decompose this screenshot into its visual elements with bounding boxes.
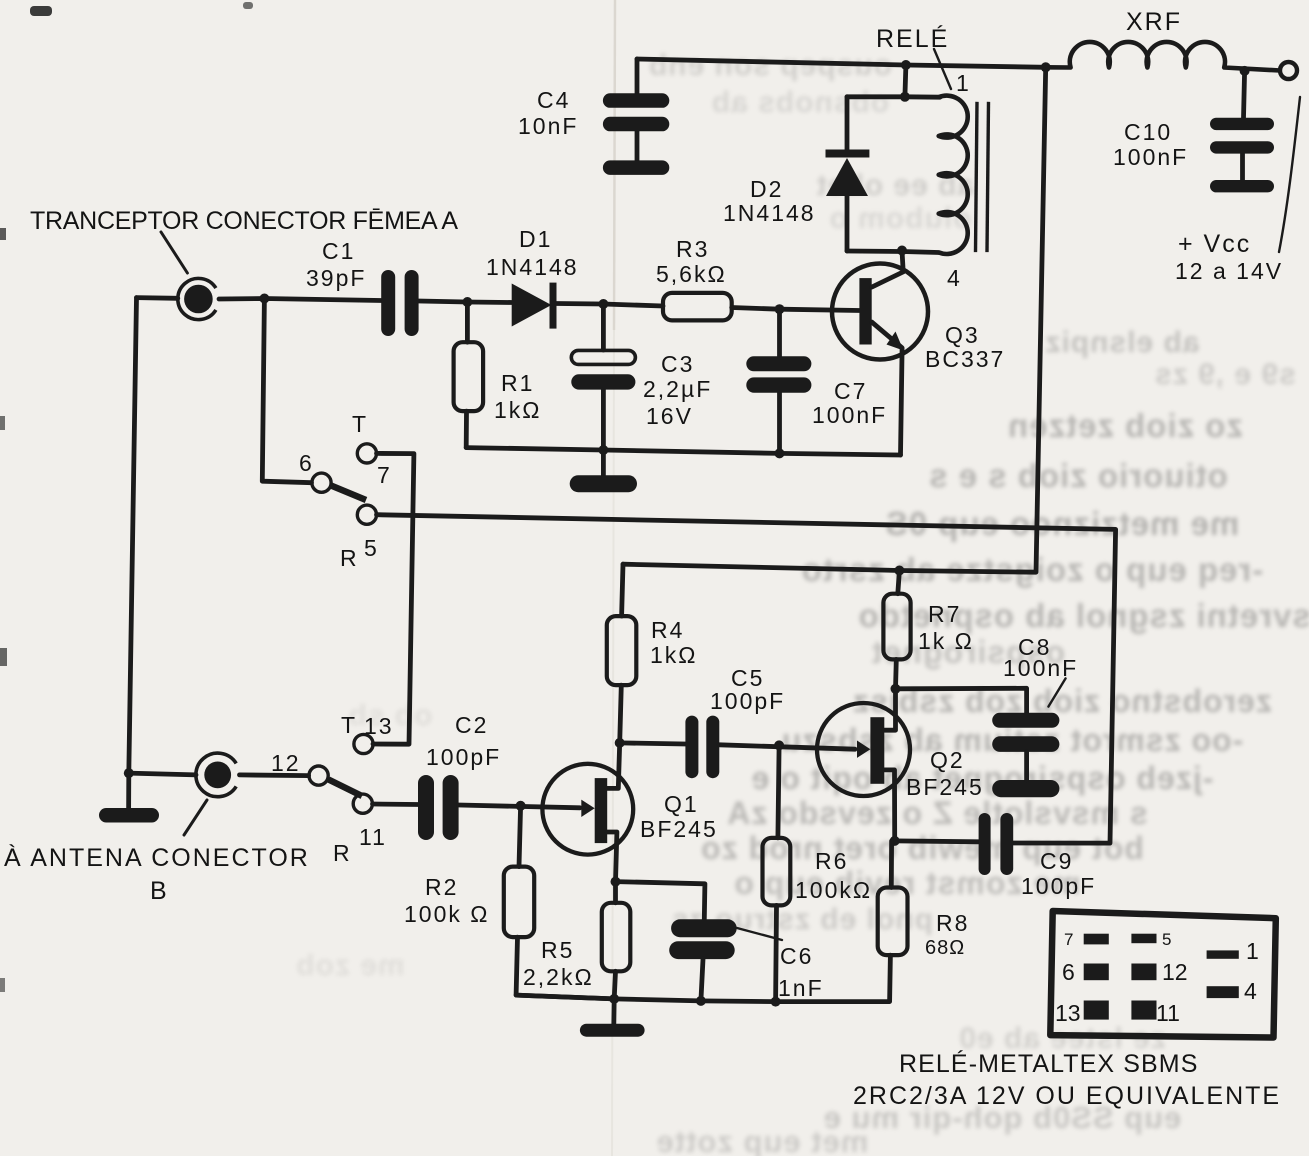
svg-text:BF245: BF245 xyxy=(906,774,984,800)
wire contact 7 down to contact 13 xyxy=(373,453,414,744)
resistor R5 stem bottom xyxy=(614,971,615,999)
resistor R4 stem bottom xyxy=(620,685,622,743)
wire left of connector A xyxy=(137,295,178,300)
svg-text:C4: C4 xyxy=(537,87,570,113)
resistor R5 body xyxy=(602,903,631,972)
svg-text:À ANTENA CONECTOR: À ANTENA CONECTOR xyxy=(4,843,310,872)
svg-text:5: 5 xyxy=(1162,930,1171,949)
diode D2 1N4148 stem top xyxy=(845,97,850,150)
relay coil winding xyxy=(939,96,968,254)
svg-text:68Ω: 68Ω xyxy=(925,937,965,959)
capacitor C5 plates xyxy=(685,716,698,779)
transistor Q3 circle xyxy=(832,264,928,360)
node junction Q2 source xyxy=(890,836,900,846)
capacitor C6 stem bottom xyxy=(701,959,703,1001)
capacitor C4 plates xyxy=(603,93,669,108)
transistor Q2 channel bar xyxy=(870,717,884,784)
relay pad 7 xyxy=(1084,934,1109,945)
svg-text:T: T xyxy=(352,411,368,437)
svg-text:otiuorio ziob s e s: otiuorio ziob s e s xyxy=(928,457,1228,494)
svg-text:C10: C10 xyxy=(1124,119,1172,145)
svg-text:100pF: 100pF xyxy=(1021,873,1096,899)
pointer line C6 xyxy=(737,928,782,940)
node junction Q1 source xyxy=(611,877,621,887)
transistor Q2 drain lead xyxy=(884,689,895,730)
svg-text:2,2µF: 2,2µF xyxy=(643,376,712,402)
svg-text:1k Ω: 1k Ω xyxy=(918,628,974,654)
capacitor C1 plates xyxy=(381,270,395,336)
svg-text:s9 e ,9 zs: s9 e ,9 zs xyxy=(1154,358,1296,391)
svg-text:1nF: 1nF xyxy=(778,975,824,1001)
svg-text:5: 5 xyxy=(364,535,379,561)
svg-text:2RC2/3A 12V OU EQUIVALENTE: 2RC2/3A 12V OU EQUIVALENTE xyxy=(853,1082,1281,1110)
svg-text:R7: R7 xyxy=(928,601,961,627)
wire contact 5 to lower oscillator xyxy=(377,515,1116,843)
svg-text:Q3: Q3 xyxy=(945,322,980,348)
svg-text:s msvslotle Z o zevsdo zA: s msvslotle Z o zevsdo zA xyxy=(726,795,1148,831)
relay pad 11 xyxy=(1131,1001,1156,1020)
svg-text:39pF: 39pF xyxy=(306,265,366,291)
svg-text:R3: R3 xyxy=(676,236,709,262)
switch S1b contact 12 xyxy=(309,766,328,785)
transistor Q1 channel bar xyxy=(595,778,608,843)
resistor R4 body xyxy=(607,616,637,685)
svg-text:100kΩ: 100kΩ xyxy=(795,877,872,903)
svg-text:D2: D2 xyxy=(750,176,783,202)
svg-text:2,2kΩ: 2,2kΩ xyxy=(523,964,594,990)
node junction Q2 drain C8 xyxy=(891,684,901,694)
resistor R8 stem top xyxy=(889,841,894,888)
resistor R7 body xyxy=(883,594,910,660)
svg-text:R2: R2 xyxy=(425,874,458,900)
svg-text:100nF: 100nF xyxy=(1003,655,1078,681)
wire D1 to R3 xyxy=(557,304,664,307)
pointer line RELE to coil xyxy=(934,49,951,89)
svg-text:C2: C2 xyxy=(455,712,488,738)
wire stem from rail down to relay top xyxy=(905,65,906,97)
scan tick left edge 2 xyxy=(0,416,5,430)
svg-text:6: 6 xyxy=(1062,959,1075,985)
svg-text:7: 7 xyxy=(377,462,392,488)
scan speck top xyxy=(243,2,253,9)
node junction ground rail C3 xyxy=(598,445,608,455)
switch S1b blade 12-11 xyxy=(329,780,363,797)
svg-text:R5: R5 xyxy=(541,937,574,963)
node junction R7 top rail xyxy=(894,566,904,576)
svg-text:me zob: me zob xyxy=(295,949,404,982)
node junction rail R6 xyxy=(771,997,781,1007)
svg-text:100pF: 100pF xyxy=(710,688,785,714)
relay pinout box outline xyxy=(1050,911,1276,1038)
svg-text:1: 1 xyxy=(1246,938,1259,964)
resistor R1 stem bottom xyxy=(464,411,469,448)
node junction top rail right xyxy=(1041,62,1051,72)
svg-text:13: 13 xyxy=(364,713,394,739)
switch S1a contact 7 T xyxy=(357,444,376,463)
node junction C10 tap xyxy=(1240,66,1250,76)
transistor Q2 circle xyxy=(817,703,910,796)
svg-text:R: R xyxy=(340,545,359,571)
svg-text:1kΩ: 1kΩ xyxy=(494,397,542,423)
wire relay bottom horizontal xyxy=(847,251,939,253)
transistor Q3 emitter lead xyxy=(872,322,902,455)
resistor R5 stem top xyxy=(613,882,618,903)
resistor R6 body xyxy=(763,838,791,906)
pointer line label to connector B xyxy=(184,800,207,835)
bottom ground rail xyxy=(516,995,776,1002)
diode D2 cathode bar xyxy=(826,150,870,158)
scan tick left edge 3 xyxy=(0,648,7,666)
resistor R8 body xyxy=(878,888,908,956)
svg-text:4: 4 xyxy=(1244,978,1257,1004)
svg-text:13: 13 xyxy=(1055,1000,1081,1026)
svg-text:C1: C1 xyxy=(322,238,355,264)
relay pad 4 xyxy=(1207,986,1239,998)
node junction C3 top xyxy=(598,299,608,309)
switch S1a blade 6-5 xyxy=(331,486,366,501)
capacitor C6 plates xyxy=(671,919,737,937)
transistor Q3 collector lead xyxy=(872,251,904,288)
transistor Q3 emitter arrow xyxy=(887,332,904,351)
svg-text:1N4148: 1N4148 xyxy=(723,200,816,226)
resistor R1 stem top xyxy=(465,302,470,342)
svg-text:12: 12 xyxy=(1162,959,1188,985)
relay pad 13 xyxy=(1084,1001,1109,1020)
svg-text:olubom o: olubom o xyxy=(829,202,972,235)
ground symbol below C3 xyxy=(601,450,606,476)
top supply rail wire xyxy=(637,59,1046,67)
connector A center pin xyxy=(184,285,213,314)
capacitor C2 plates xyxy=(418,775,434,840)
svg-text:Q2: Q2 xyxy=(930,747,965,773)
svg-text:obsnobs ab: obsnobs ab xyxy=(711,86,889,119)
svg-text:100k Ω: 100k Ω xyxy=(404,901,489,927)
relay pad 12 xyxy=(1131,964,1156,981)
capacitor C3 positive plate (hollow) xyxy=(571,350,635,364)
svg-text:R4: R4 xyxy=(651,617,684,643)
scan tick left edge 1 xyxy=(0,228,6,240)
svg-text:BC337: BC337 xyxy=(925,346,1005,372)
transistor Q3 base bar xyxy=(859,278,871,344)
transistor Q1 drain lead xyxy=(607,743,620,789)
svg-text:100nF: 100nF xyxy=(812,402,887,428)
svg-text:T: T xyxy=(341,712,357,738)
wire contact 11 to C2 xyxy=(373,802,419,807)
svg-text:zo ziob zetzen: zo ziob zetzen xyxy=(1007,407,1243,444)
svg-text:5,6kΩ: 5,6kΩ xyxy=(656,261,727,287)
svg-text:bot eup mewib oret nrod zo: bot eup mewib oret nrod zo xyxy=(700,830,1144,866)
svg-text:7: 7 xyxy=(1064,930,1073,949)
wire connector A to C1 xyxy=(219,299,381,301)
svg-text:BF245: BF245 xyxy=(640,816,718,842)
capacitor C10 plates xyxy=(1210,118,1274,130)
resistor R7 stem top xyxy=(898,571,900,594)
resistor R6 stem bottom xyxy=(773,905,779,1001)
node junction R6 top xyxy=(774,740,784,750)
pointer line label to connector A xyxy=(161,232,187,273)
svg-text:D1: D1 xyxy=(519,226,552,252)
transistor Q1 circle xyxy=(542,764,633,855)
relay pad 1 xyxy=(1207,950,1239,958)
switch S1a contact 6 xyxy=(312,473,331,492)
transistor Q1 source lead xyxy=(607,832,617,882)
wire Q1 source to C6 xyxy=(616,882,705,920)
inductor XRF xyxy=(1046,42,1280,71)
pointer curve to Vcc terminal xyxy=(1279,97,1300,252)
relay core line 2 xyxy=(987,102,989,252)
capacitor C3 stem bottom xyxy=(601,390,606,450)
svg-text:12: 12 xyxy=(271,750,301,776)
connector B center pin xyxy=(204,762,231,789)
antenna output terminal xyxy=(1280,62,1297,79)
svg-text:R8: R8 xyxy=(936,910,969,936)
capacitor C8 stem xyxy=(1024,752,1029,780)
diode D1 triangle xyxy=(512,284,552,327)
ground rail upper section xyxy=(466,448,900,455)
node junction connector B xyxy=(124,768,134,778)
svg-text:Q1: Q1 xyxy=(664,791,699,817)
transistor Q1 gate arrow xyxy=(581,800,594,817)
svg-text:R: R xyxy=(333,840,352,866)
wire right-side vertical down to lower rail xyxy=(623,67,1046,572)
relay pad 5 xyxy=(1131,934,1156,944)
svg-text:C9: C9 xyxy=(1040,848,1073,874)
svg-text:R6: R6 xyxy=(815,848,848,874)
svg-text:TRANCEPTOR CONECTOR FĒMEA A: TRANCEPTOR CONECTOR FĒMEA A xyxy=(30,207,460,235)
wire Q2 drain to C8 xyxy=(896,688,1027,713)
pointer line C8 xyxy=(1048,678,1065,706)
svg-text:4: 4 xyxy=(947,265,962,291)
svg-text:11: 11 xyxy=(1156,1000,1180,1026)
node junction R2 top xyxy=(516,801,526,811)
svg-text:100pF: 100pF xyxy=(426,744,501,770)
wire C1 to D1 xyxy=(418,301,511,303)
resistor R3 body xyxy=(663,293,732,321)
scan tick left edge 4 xyxy=(0,978,5,992)
svg-text:C3: C3 xyxy=(661,351,694,377)
resistor R7 stem bottom xyxy=(893,659,899,688)
capacitor C7 stem bottom xyxy=(777,393,782,454)
svg-text:C6: C6 xyxy=(780,943,813,969)
capacitor C3 negative plate xyxy=(571,374,635,389)
node junction R1 top xyxy=(462,297,472,307)
svg-text:1N4148: 1N4148 xyxy=(486,254,579,280)
svg-text:100nF: 100nF xyxy=(1113,144,1188,170)
ground stem below R5 xyxy=(611,999,616,1025)
svg-text:10nF: 10nF xyxy=(518,113,578,139)
svg-text:1kΩ: 1kΩ xyxy=(650,642,698,668)
svg-text:C7: C7 xyxy=(834,378,867,404)
node junction rail R5 xyxy=(609,994,619,1004)
wire C5 to Q2 gate xyxy=(719,745,855,749)
transistor Q2 gate arrow xyxy=(857,741,870,758)
switch S1b contact 11 R xyxy=(353,794,372,813)
svg-text:RELÉ: RELÉ xyxy=(876,24,949,53)
scan speck top left xyxy=(30,6,52,16)
capacitor C9 plates xyxy=(979,813,991,875)
ground symbol connector B xyxy=(99,808,159,823)
node junction C7 top xyxy=(775,304,785,314)
svg-text:6: 6 xyxy=(299,450,314,476)
svg-text:XRF: XRF xyxy=(1126,8,1182,36)
wire Q2 source to C9 xyxy=(895,839,979,845)
svg-text:R1: R1 xyxy=(501,370,534,396)
fold line xyxy=(614,0,615,330)
capacitor C8 plates xyxy=(992,713,1059,728)
ground stem at connector B xyxy=(126,773,131,812)
svg-text:12 a 14V: 12 a 14V xyxy=(1175,258,1283,284)
resistor R6 stem top xyxy=(778,745,779,838)
switch S1a contact 5 R xyxy=(357,505,376,524)
svg-text:met eup zotte: met eup zotte xyxy=(656,1124,869,1156)
switch S1b contact 13 T xyxy=(354,734,373,753)
wire Q1 drain to C5 xyxy=(620,743,686,744)
capacitor C7 stem top xyxy=(777,309,782,356)
node junction rail C6 xyxy=(696,996,706,1006)
diode D1 cathode bar xyxy=(550,283,557,329)
node junction top rail to relay xyxy=(901,60,911,70)
wire C2 to Q1 gate xyxy=(459,805,580,808)
node junction below connector A xyxy=(259,294,269,304)
capacitor C7 plates xyxy=(746,356,811,371)
wire junction A down to switch S1a xyxy=(262,299,311,483)
resistor R2 stem bottom xyxy=(516,937,614,999)
diode D2 stem bottom xyxy=(845,196,850,251)
relay core line 1 xyxy=(976,102,978,252)
capacitor C4 stem xyxy=(635,59,640,162)
svg-text:1: 1 xyxy=(956,70,971,96)
svg-text:B: B xyxy=(150,877,169,905)
resistor R1 body xyxy=(454,342,484,411)
wire R3 to Q3 base xyxy=(732,308,860,311)
wire connector B to switch S1b xyxy=(240,773,309,778)
svg-text:ab elsnpiz: ab elsnpiz xyxy=(1044,326,1199,359)
node junction Q1 drain C5 xyxy=(615,738,625,748)
resistor R2 body xyxy=(504,867,534,938)
svg-text:+ Vcc: + Vcc xyxy=(1178,230,1251,258)
svg-text:16V: 16V xyxy=(646,403,693,429)
svg-text:11: 11 xyxy=(359,824,387,850)
wire relay top horizontal xyxy=(847,94,940,99)
connector B outer ring xyxy=(196,753,236,797)
node junction ground rail C7 xyxy=(775,448,785,458)
left vertical wire A to B xyxy=(129,298,137,773)
svg-text:RELÉ-METALTEX SBMS: RELÉ-METALTEX SBMS xyxy=(899,1049,1199,1078)
connector A outer ring xyxy=(178,278,216,319)
resistor R4 stem top xyxy=(622,564,623,616)
node junction relay bottom / Q3 collector xyxy=(897,246,907,256)
capacitor C10 stem xyxy=(1243,71,1245,180)
node junction relay top xyxy=(900,92,910,102)
transistor Q2 source lead xyxy=(884,770,894,841)
capacitor C3 stem top xyxy=(601,304,606,350)
resistor R8 stem bottom xyxy=(776,955,891,1002)
relay pad 6 xyxy=(1084,964,1109,981)
diode D2 triangle xyxy=(826,158,868,196)
resistor R2 stem top xyxy=(519,806,521,867)
ground symbol lower xyxy=(580,1024,645,1037)
wire junction to connector B xyxy=(129,773,196,775)
